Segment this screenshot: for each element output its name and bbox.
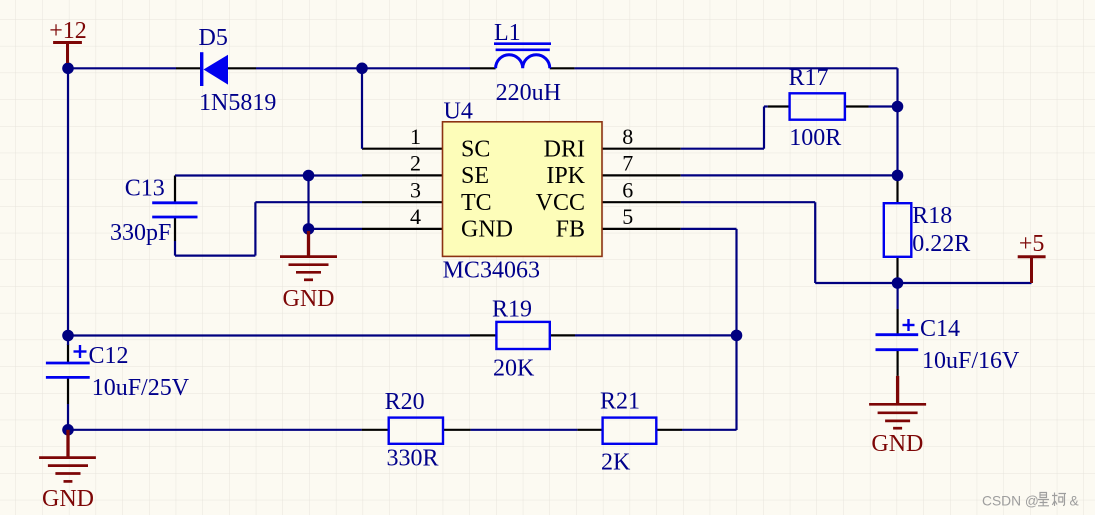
svg-text:2K: 2K (601, 450, 631, 476)
svg-text:GND: GND (283, 286, 335, 312)
svg-text:330R: 330R (387, 446, 439, 472)
svg-text:3: 3 (410, 177, 421, 202)
svg-text:&: & (1070, 494, 1079, 509)
svg-text:20K: 20K (493, 356, 535, 382)
svg-text:100R: 100R (789, 125, 841, 151)
svg-text:MC34063: MC34063 (443, 258, 540, 284)
svg-text:CSDN @: CSDN @ (982, 494, 1039, 509)
svg-text:TC: TC (461, 190, 492, 216)
svg-text:2: 2 (410, 151, 421, 176)
svg-text:10uF/16V: 10uF/16V (922, 348, 1020, 374)
svg-text:DRI: DRI (544, 137, 585, 163)
svg-text:C13: C13 (125, 176, 165, 202)
svg-text:R21: R21 (600, 389, 640, 415)
svg-text:C14: C14 (920, 316, 960, 342)
svg-text:220uH: 220uH (496, 80, 561, 106)
svg-text:C12: C12 (89, 343, 129, 369)
svg-text:+5: +5 (1019, 231, 1045, 257)
svg-text:SE: SE (461, 163, 489, 189)
svg-text:1N5819: 1N5819 (199, 90, 276, 116)
svg-text:0.22R: 0.22R (912, 231, 970, 257)
svg-text:D5: D5 (199, 25, 228, 51)
svg-text:VCC: VCC (536, 190, 585, 216)
svg-text:10uF/25V: 10uF/25V (92, 375, 190, 401)
svg-text:GND: GND (871, 431, 923, 457)
svg-text:R18: R18 (912, 203, 952, 229)
svg-text:5: 5 (622, 204, 633, 229)
svg-text:R19: R19 (492, 297, 532, 323)
svg-text:R20: R20 (385, 389, 425, 415)
svg-text:330pF: 330pF (110, 220, 171, 246)
svg-text:GND: GND (42, 486, 94, 512)
svg-text:4: 4 (410, 204, 421, 229)
svg-text:8: 8 (622, 124, 633, 149)
svg-text:+12: +12 (49, 18, 87, 44)
svg-text:SC: SC (461, 137, 490, 163)
svg-text:R17: R17 (789, 65, 829, 91)
svg-text:L1: L1 (494, 20, 521, 46)
svg-text:GND: GND (461, 217, 513, 243)
svg-text:FB: FB (556, 217, 585, 243)
svg-text:7: 7 (622, 151, 633, 176)
svg-text:6: 6 (622, 177, 633, 202)
svg-text:IPK: IPK (546, 163, 585, 189)
svg-text:1: 1 (410, 124, 421, 149)
svg-text:U4: U4 (444, 99, 473, 125)
